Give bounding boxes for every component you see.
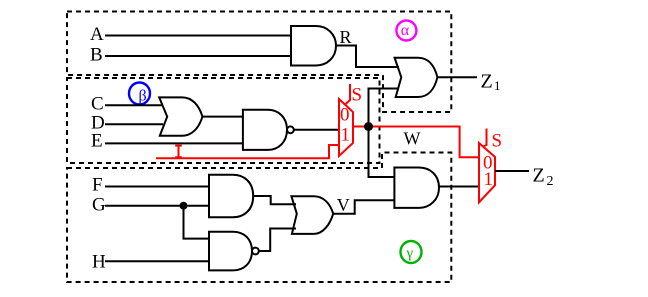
wire C xyxy=(105,104,163,106)
wire E xyxy=(105,142,243,144)
wire NAND2 output to OR3 bottom input xyxy=(259,229,296,252)
label I constant xyxy=(175,146,182,158)
svg-text:W: W xyxy=(404,129,421,149)
wire D xyxy=(105,123,163,125)
wire B xyxy=(105,55,291,57)
svg-text:S: S xyxy=(492,131,503,152)
wire R from AND1 to OR1 top input xyxy=(336,46,399,68)
svg-text:β: β xyxy=(139,88,147,105)
wire MUX1 output / W wire (red) xyxy=(353,127,479,158)
or-gate OR3 (V) xyxy=(291,196,333,234)
wire OR1 output Z1 xyxy=(437,76,477,78)
wire MUX2 output Z2 xyxy=(495,170,529,172)
svg-text:B: B xyxy=(90,45,103,66)
mux MUX2 select wire xyxy=(483,129,487,147)
and-gate AND2 (F,G) xyxy=(209,175,253,218)
wire OR2 output xyxy=(202,116,243,118)
constant 1 wire (red) to MUX1 input 1 xyxy=(156,145,339,158)
box alpha region xyxy=(67,12,451,113)
wire H xyxy=(105,260,209,262)
wire V to AND3 bottom input xyxy=(333,200,394,214)
wire G branch down to NAND2 xyxy=(184,206,210,239)
svg-text:G: G xyxy=(92,195,106,216)
svg-text:R: R xyxy=(340,27,352,47)
wire NAND1 output to MUX1 input 0 xyxy=(294,129,339,131)
mux MUX1 select wire xyxy=(345,84,350,105)
svg-text:Z: Z xyxy=(481,70,493,92)
and-gate AND1 (A,B) xyxy=(291,26,336,66)
or-gate OR1 (Z1) xyxy=(395,58,438,97)
svg-text:V: V xyxy=(337,195,350,215)
nand-gate NAND2 (G,H) xyxy=(209,232,259,271)
svg-text:Z: Z xyxy=(533,165,545,187)
box beta region xyxy=(67,78,380,163)
and-gate AND3 xyxy=(394,168,439,208)
wire A xyxy=(105,35,291,37)
nand-gate NAND1 xyxy=(243,110,294,150)
junction node dot xyxy=(364,122,373,131)
junction node dot G xyxy=(180,202,188,210)
svg-text:H: H xyxy=(92,252,106,273)
wire G xyxy=(105,205,209,207)
mux MUX2 xyxy=(479,143,495,202)
svg-text:F: F xyxy=(92,175,103,196)
svg-text:A: A xyxy=(90,24,104,45)
mux MUX1 xyxy=(339,99,353,156)
label gamma xyxy=(401,241,422,263)
wire junction vertical: OR1 bottom input down to AND3 top input xyxy=(369,89,400,178)
wire F xyxy=(105,186,209,188)
svg-text:S: S xyxy=(352,85,363,106)
svg-text:α: α xyxy=(401,22,410,39)
box gamma region xyxy=(67,153,451,283)
wire AND3 output to MUX2 input 1 xyxy=(439,186,479,188)
or-gate OR2 (C,D) xyxy=(159,97,202,135)
svg-text:0: 0 xyxy=(340,105,350,126)
svg-text:γ: γ xyxy=(406,246,414,262)
svg-text:2: 2 xyxy=(547,174,554,189)
wire AND2 output to OR3 top input xyxy=(253,196,296,204)
svg-text:1: 1 xyxy=(494,78,501,93)
svg-text:1: 1 xyxy=(484,169,494,190)
svg-text:E: E xyxy=(91,131,103,152)
svg-text:1: 1 xyxy=(341,125,351,146)
label alpha xyxy=(396,21,416,41)
label beta xyxy=(129,83,150,105)
